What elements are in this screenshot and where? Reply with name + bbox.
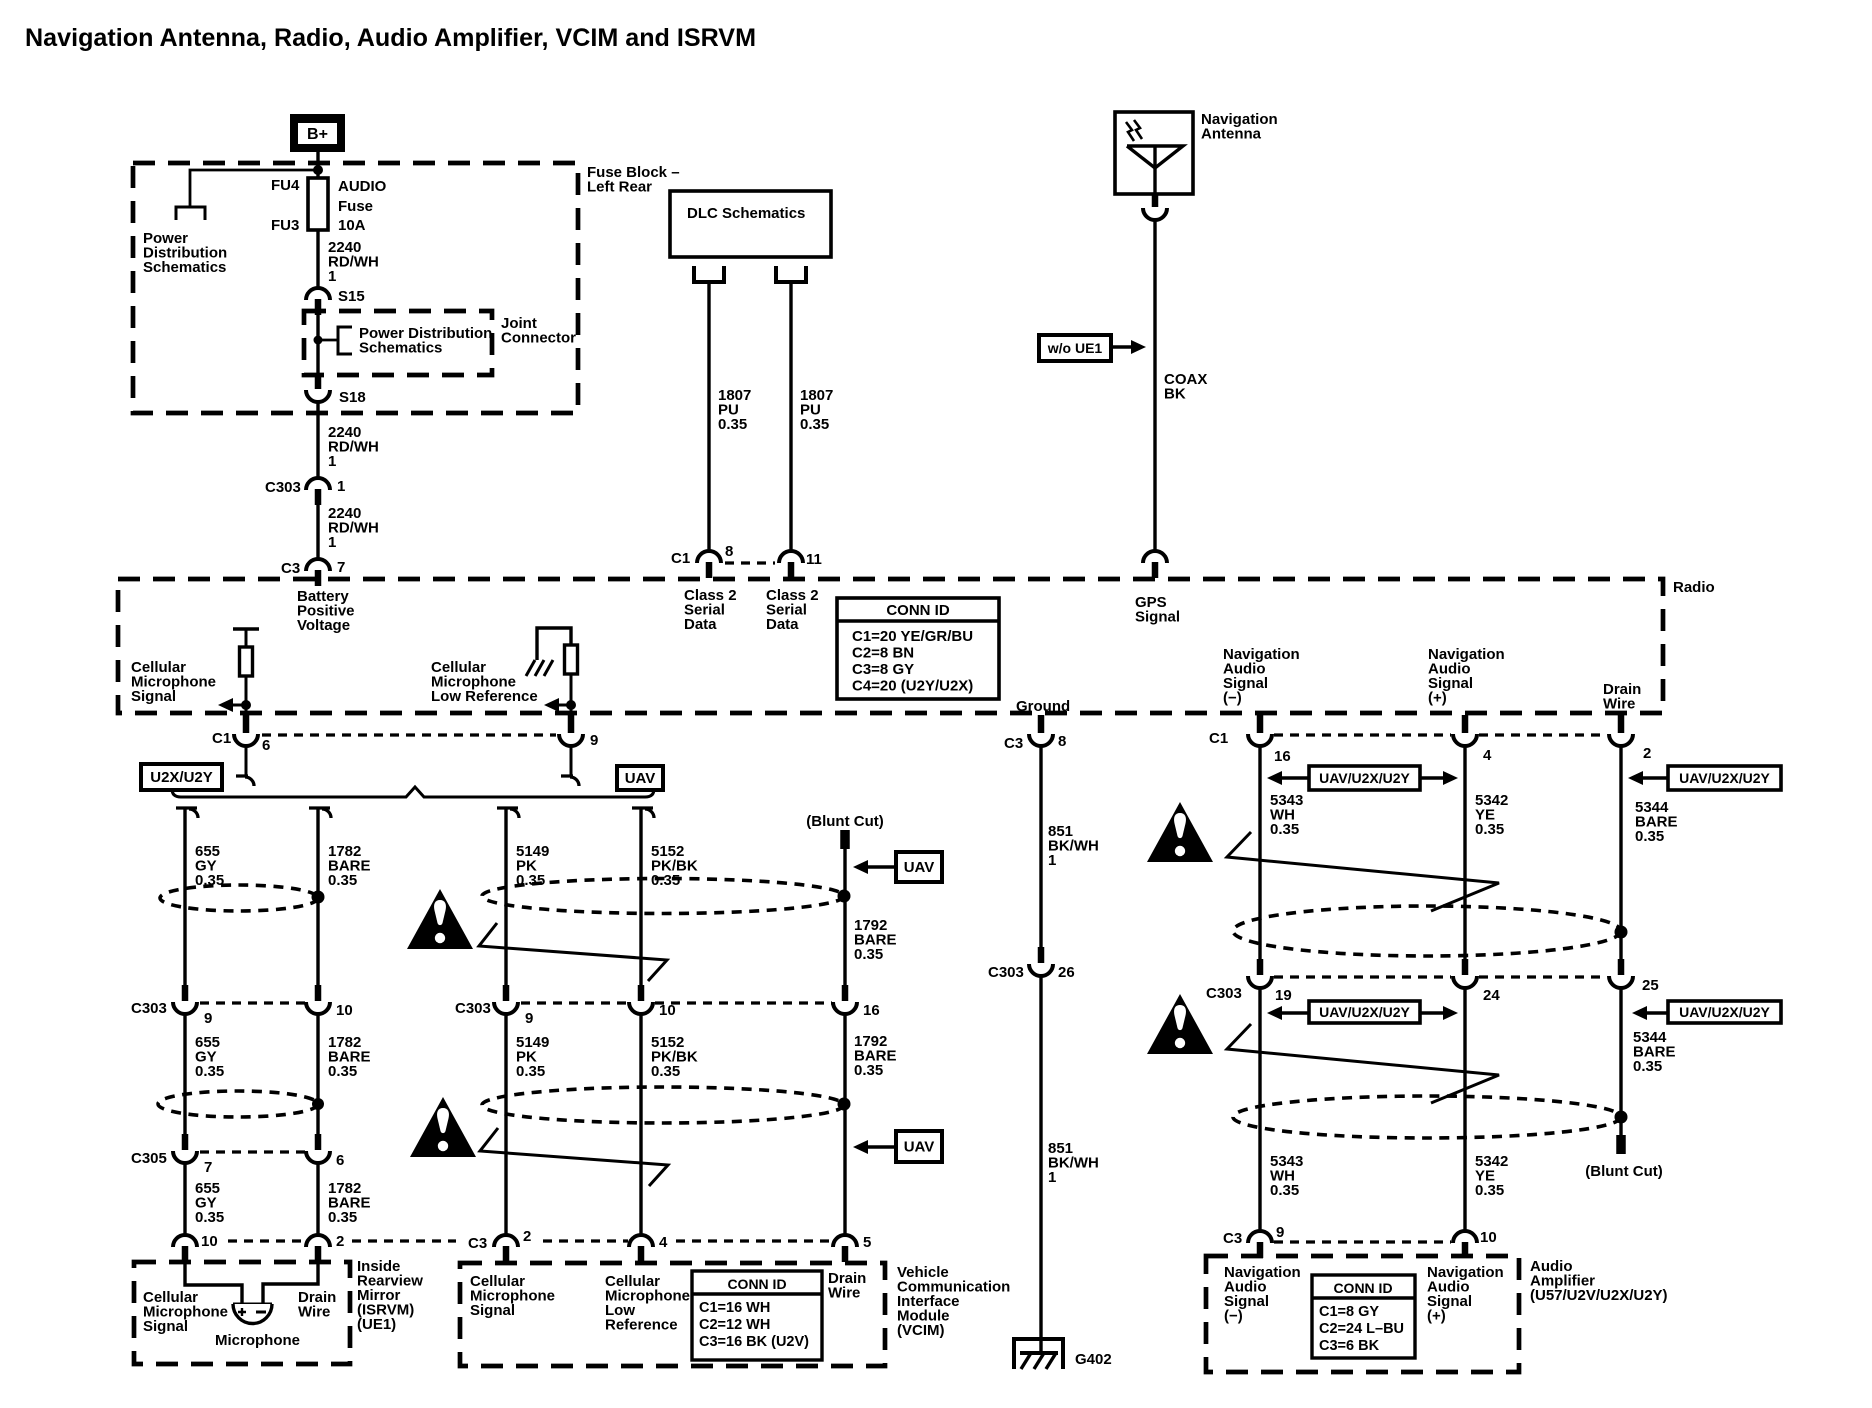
twisted pair ellipse VCIM 1 (482, 879, 844, 914)
twisted pair pointer VCIM 2 (480, 1128, 668, 1186)
svg-text:19: 19 (1275, 987, 1292, 1004)
DLC Schematics box (670, 191, 831, 257)
dashed connector row C1 right (1274, 733, 1451, 736)
ground G402 symbol (1014, 1339, 1063, 1369)
svg-text:C1: C1 (212, 730, 231, 747)
svg-text:C1: C1 (671, 550, 690, 567)
wire 24 down to amp (1463, 987, 1466, 1231)
svg-text:10: 10 (201, 1233, 218, 1250)
wire B+ to fuse block (316, 152, 319, 178)
junction bare at ellipse 1 (312, 891, 325, 904)
svg-text:FU3: FU3 (271, 217, 299, 234)
connector C305 pin 7 (182, 1134, 189, 1150)
junction mic signal (241, 700, 251, 710)
cellular microphone low reference bracket (537, 628, 571, 660)
connector C3 pin 9 amp (1248, 1231, 1272, 1243)
harness tag U2X/U2Y (141, 764, 222, 790)
dashed connector row C1 (262, 733, 556, 736)
svg-text:S15: S15 (338, 288, 365, 305)
connector C305 pin 6 (315, 1134, 322, 1150)
svg-text:C3=16 BK (U2V): C3=16 BK (U2V) (699, 1334, 809, 1350)
joint connector dashed box (304, 311, 492, 375)
harness tag UAV/U2X/U2Y drain row2 (1632, 1006, 1668, 1020)
svg-text:10: 10 (336, 1002, 353, 1019)
junction drain VCIM 2 (838, 1098, 851, 1111)
svg-text:9: 9 (590, 732, 598, 749)
svg-text:Microphone: Microphone (215, 1332, 300, 1349)
svg-text:CONN ID: CONN ID (886, 602, 950, 619)
svg-text:C3=6 BK: C3=6 BK (1319, 1338, 1380, 1354)
junction drain at ellipse 2 (1615, 1111, 1628, 1124)
warning triangle radio pair (1147, 802, 1213, 862)
fuse FU4/FU3 AUDIO 10A (308, 178, 328, 230)
wire 655 GY lower (183, 1162, 186, 1235)
connector C1 pin 2 (1618, 715, 1625, 733)
svg-text:Radio: Radio (1673, 579, 1715, 596)
svg-text:CONN ID: CONN ID (1333, 1280, 1392, 1296)
wire C1-9 to twisted pair break (570, 745, 573, 776)
svg-text:C2=24 L–BU: C2=24 L–BU (1319, 1321, 1404, 1337)
svg-text:0.35: 0.35 (195, 1063, 224, 1080)
svg-text:2: 2 (336, 1233, 344, 1250)
connector C3 pin 8 (1038, 715, 1045, 733)
svg-text:24: 24 (1483, 987, 1500, 1004)
connector C303 pin 1 (306, 478, 330, 490)
svg-text:C3=8 GY: C3=8 GY (852, 661, 914, 678)
wire to joint connector reference (318, 339, 338, 342)
harness tag UAV lower (853, 1140, 896, 1154)
svg-text:25: 25 (1642, 977, 1659, 994)
harness tag UAV/U2X/U2Y with arrows (1267, 771, 1458, 785)
connector C303 pin 16 VCIM (842, 985, 849, 1001)
connector C1 pin 9 (568, 715, 575, 733)
svg-text:Antenna: Antenna (1201, 126, 1262, 143)
dashed connector row C303 VCIM (521, 1001, 628, 1004)
svg-text:2: 2 (1643, 745, 1651, 762)
twisted pair ellipse amp (1233, 1096, 1621, 1138)
svg-text:Signal: Signal (1135, 609, 1180, 626)
wire ground segment 851 (1039, 745, 1042, 947)
junction drain at ellipse (1615, 926, 1628, 939)
svg-text:9: 9 (1276, 1224, 1284, 1241)
DLC receptacle right (776, 266, 806, 282)
connector C1 pin 8 into radio (697, 551, 721, 563)
wire 5152 PK/BK lower (639, 1013, 642, 1235)
connector GPS into radio (1143, 551, 1167, 563)
junction mic low reference (566, 700, 576, 710)
svg-text:Voltage: Voltage (297, 617, 350, 634)
svg-text:Data: Data (684, 616, 717, 633)
connector C303 pin 10 VCIM (638, 985, 645, 1001)
svg-text:1: 1 (328, 534, 336, 551)
wire resistor to C1 pin 9 (570, 674, 573, 716)
antenna interference bolts (1126, 122, 1134, 141)
resistor in radio mic low reference (565, 645, 578, 674)
svg-text:1: 1 (337, 478, 345, 495)
svg-text:8: 8 (725, 543, 733, 560)
connector C1 pin 6 (243, 715, 250, 733)
wire DLC to C1 pin 8 (707, 282, 710, 551)
wire 1792 BARE lower (843, 1013, 846, 1235)
wire radio 2 drain down (1619, 745, 1622, 959)
power distribution schematics bracket (176, 207, 205, 220)
cellular microphone signal source bar (233, 627, 259, 630)
chassis ground hatch in radio (526, 660, 553, 676)
dashed connector link C1 (725, 561, 775, 564)
svg-text:26: 26 (1058, 964, 1075, 981)
harness brace (172, 787, 654, 797)
warning triangle VCIM 2 (410, 1097, 476, 1157)
wire fuse to S15 (316, 230, 319, 288)
junction bare at ellipse 2 (312, 1098, 324, 1110)
svg-text:(VCIM): (VCIM) (897, 1322, 945, 1339)
svg-text:C303: C303 (1206, 985, 1242, 1002)
wire 1792 BARE drain top (843, 849, 846, 985)
svg-text:FU4: FU4 (271, 177, 300, 194)
pigtail end mic signal (236, 776, 254, 786)
node B+ battery positive terminal (290, 114, 345, 152)
svg-text:0.35: 0.35 (1270, 1182, 1299, 1199)
svg-text:C3: C3 (1004, 735, 1023, 752)
svg-text:(U57/U2V/U2X/U2Y): (U57/U2V/U2X/U2Y) (1530, 1287, 1668, 1304)
blunt cut bar right (1616, 1135, 1626, 1154)
dashed connector row C303 left (200, 1001, 305, 1004)
svg-text:4: 4 (659, 1234, 668, 1251)
svg-text:Wire: Wire (298, 1304, 330, 1321)
harness tag UAV top (853, 860, 896, 874)
svg-text:1: 1 (328, 453, 336, 470)
connector C303 pin 9 left (182, 985, 189, 1001)
junction in joint connector (314, 336, 323, 345)
svg-text:10: 10 (1480, 1229, 1497, 1246)
svg-text:7: 7 (204, 1159, 212, 1176)
svg-text:C303: C303 (131, 1000, 167, 1017)
dashed connector row C305 (200, 1150, 305, 1153)
arrow w/o UE1 (1111, 345, 1133, 348)
svg-text:0.35: 0.35 (516, 1063, 545, 1080)
harness tag UAV (617, 766, 663, 790)
svg-text:7: 7 (337, 559, 345, 576)
svg-text:10A: 10A (338, 217, 366, 234)
twisted pair ellipse radio (1233, 906, 1621, 956)
svg-text:9: 9 (204, 1010, 212, 1027)
connector C303 pin 26 (1038, 947, 1045, 963)
svg-text:C305: C305 (131, 1150, 167, 1167)
svg-text:11: 11 (806, 551, 822, 568)
svg-text:16: 16 (1274, 748, 1291, 765)
svg-text:Connector: Connector (501, 330, 576, 347)
connector C3 pin 10 amp (1453, 1231, 1477, 1243)
twisted pair pointer amp (1227, 1024, 1499, 1103)
junction drain VCIM 1 (838, 890, 851, 903)
svg-text:0.35: 0.35 (651, 1063, 680, 1080)
wire 5149 PK top (497, 808, 519, 818)
microphone symbol (233, 1304, 272, 1324)
resistor in radio mic signal (245, 629, 248, 647)
svg-text:Ground: Ground (1016, 698, 1070, 715)
connector C3 pin 4 VCIM (629, 1235, 653, 1247)
wire radio 4 down (1463, 745, 1466, 959)
connector C303 pin 25 (1618, 959, 1625, 975)
svg-text:C1=16 WH: C1=16 WH (699, 1300, 770, 1316)
arrow cellular microphone low reference (558, 704, 571, 707)
dashed connector row C3 amp (1274, 1240, 1451, 1243)
svg-text:C2=8 BN: C2=8 BN (852, 645, 914, 662)
svg-text:1: 1 (1048, 1169, 1056, 1186)
fuse block dashed box (133, 163, 578, 413)
svg-text:(+): (+) (1427, 1308, 1446, 1325)
joint connector power distribution bracket (338, 327, 352, 354)
svg-text:4: 4 (1483, 747, 1492, 764)
svg-text:Signal: Signal (143, 1318, 188, 1335)
svg-text:Low Reference: Low Reference (431, 688, 538, 705)
wire S18 to C303 (316, 401, 319, 478)
svg-text:UAV: UAV (625, 770, 656, 787)
svg-text:UAV: UAV (904, 1139, 935, 1156)
svg-text:Wire: Wire (1603, 696, 1635, 713)
svg-text:0.35: 0.35 (1475, 1182, 1504, 1199)
svg-text:Wire: Wire (828, 1285, 860, 1302)
svg-text:C303: C303 (265, 479, 301, 496)
svg-text:0.35: 0.35 (854, 946, 883, 963)
wire resistor to C1 pin 6 (245, 676, 248, 716)
svg-text:C4=20 (U2Y/U2X): C4=20 (U2Y/U2X) (852, 678, 973, 695)
wire 19 down to amp (1258, 987, 1261, 1231)
DLC receptacle left (694, 266, 724, 282)
twisted pair ellipse ISRVM 2 (158, 1091, 318, 1117)
dashed connector row C303 right (1274, 975, 1451, 978)
connector C303 pin 10 left (315, 985, 322, 1001)
connector C3 pin 2 VCIM (494, 1235, 518, 1247)
antenna connector (1152, 195, 1159, 207)
svg-text:C1=20 YE/GR/BU: C1=20 YE/GR/BU (852, 628, 973, 645)
svg-text:(Blunt Cut): (Blunt Cut) (1585, 1163, 1662, 1180)
svg-text:(Blunt Cut): (Blunt Cut) (806, 813, 883, 830)
svg-text:0.35: 0.35 (718, 416, 747, 433)
connector C303 pin 19 (1257, 959, 1264, 975)
svg-text:6: 6 (262, 737, 270, 754)
svg-text:0.35: 0.35 (800, 416, 829, 433)
connector C3 pin 5 VCIM (833, 1235, 857, 1247)
radio dashed box (118, 579, 1663, 713)
wire DLC to C1 pin 11 (789, 282, 792, 551)
radio CONN ID table (837, 598, 999, 699)
svg-text:C303: C303 (455, 1000, 491, 1017)
wire 5149 PK lower (504, 1013, 507, 1235)
svg-text:Signal: Signal (470, 1302, 515, 1319)
svg-text:Fuse: Fuse (338, 198, 373, 215)
svg-text:UAV: UAV (904, 859, 935, 876)
svg-text:AUDIO: AUDIO (338, 178, 387, 195)
wire pair left 1782 BARE (309, 808, 331, 818)
harness tag UAV/U2X/U2Y drain (1628, 771, 1668, 785)
svg-text:G402: G402 (1075, 1351, 1112, 1368)
amp CONN ID table (1312, 1275, 1415, 1358)
svg-text:UAV/U2X/U2Y: UAV/U2X/U2Y (1679, 1004, 1770, 1020)
VCIM dashed box (460, 1263, 885, 1366)
connector C303 pin 9 VCIM (503, 985, 510, 1001)
twisted pair ellipse ISRVM 1 (160, 885, 318, 911)
wire 5152 PK/BK top (632, 808, 654, 818)
svg-text:C303: C303 (988, 964, 1024, 981)
navigation antenna box (1115, 112, 1193, 194)
connector C303 pin 24 (1462, 959, 1469, 975)
svg-text:0.35: 0.35 (1475, 821, 1504, 838)
connector pin 10 into ISRVM (173, 1235, 197, 1247)
svg-text:1: 1 (1048, 852, 1056, 869)
wire pair left 655 GY (176, 808, 198, 818)
wire C303 to C3 (316, 505, 319, 559)
antenna symbol (1127, 146, 1183, 168)
svg-text:0.35: 0.35 (328, 872, 357, 889)
connector C1 pin 4 (1462, 715, 1469, 733)
svg-text:(−): (−) (1224, 1308, 1243, 1325)
svg-text:9: 9 (525, 1010, 533, 1027)
junction on B+ feed (313, 165, 323, 175)
connector pin 2 into ISRVM (306, 1235, 330, 1247)
svg-text:Navigation Antenna, Radio, Aud: Navigation Antenna, Radio, Audio Amplifi… (25, 24, 756, 52)
svg-text:0.35: 0.35 (1635, 828, 1664, 845)
svg-text:5: 5 (863, 1234, 871, 1251)
warning triangle VCIM 1 (407, 889, 473, 949)
twisted pair pointer radio (1227, 832, 1499, 911)
svg-text:UAV/U2X/U2Y: UAV/U2X/U2Y (1319, 1004, 1410, 1020)
connector C1 pin 11 into radio (779, 551, 803, 563)
splice S15 (306, 288, 330, 300)
wire branch to power distribution (190, 170, 318, 207)
svg-text:6: 6 (336, 1152, 344, 1169)
option tag w/o UE1 (1039, 335, 1111, 361)
svg-text:0.35: 0.35 (854, 1062, 883, 1079)
dashed connector row C3 VCIM (543, 1239, 628, 1242)
svg-text:CONN ID: CONN ID (727, 1276, 786, 1292)
svg-text:0.35: 0.35 (328, 1209, 357, 1226)
arrow cellular microphone signal (232, 704, 246, 707)
wire 25 down to blunt cut (1619, 987, 1622, 1135)
svg-text:Data: Data (766, 616, 799, 633)
wire S15 to S18 (316, 314, 319, 374)
blunt cut bar top (840, 830, 850, 849)
svg-text:(UE1): (UE1) (357, 1316, 396, 1333)
svg-text:DLC Schematics: DLC Schematics (687, 205, 805, 222)
wire ground to G402 (1039, 974, 1042, 1353)
svg-text:S18: S18 (339, 389, 366, 406)
svg-text:w/o UE1: w/o UE1 (1047, 340, 1103, 356)
twisted pair pointer VCIM 1 (479, 923, 667, 981)
connector C1 pin 16 (1257, 715, 1264, 733)
VCIM CONN ID table (692, 1271, 822, 1360)
wire radio 16 down (1258, 745, 1261, 959)
svg-text:0.35: 0.35 (1633, 1058, 1662, 1075)
wire 1782 BARE mid (316, 1013, 319, 1134)
svg-text:C3: C3 (1223, 1230, 1242, 1247)
svg-text:C3: C3 (281, 560, 300, 577)
dashed connector row ISRVM (228, 1239, 303, 1242)
svg-text:2: 2 (523, 1228, 531, 1245)
ISRVM dashed box (134, 1262, 350, 1364)
svg-text:Schematics: Schematics (359, 340, 442, 357)
splice S18 (315, 373, 322, 389)
svg-text:UAV/U2X/U2Y: UAV/U2X/U2Y (1319, 770, 1410, 786)
svg-text:(−): (−) (1223, 690, 1242, 707)
pigtail end mic low reference (561, 776, 579, 786)
svg-text:0.35: 0.35 (328, 1063, 357, 1080)
svg-text:BK: BK (1164, 386, 1186, 403)
svg-text:0.35: 0.35 (195, 1209, 224, 1226)
svg-text:8: 8 (1058, 733, 1066, 750)
svg-text:U2X/U2Y: U2X/U2Y (150, 769, 213, 786)
svg-text:Left Rear: Left Rear (587, 179, 652, 196)
wire 1782 BARE lower (316, 1162, 319, 1235)
svg-text:B+: B+ (307, 126, 328, 143)
warning triangle amp pair (1147, 994, 1213, 1054)
svg-text:Reference: Reference (605, 1317, 678, 1334)
audio amplifier dashed box (1206, 1256, 1519, 1372)
svg-text:1: 1 (328, 268, 336, 285)
mic wires inside ISRVM (185, 1262, 242, 1304)
svg-text:C1: C1 (1209, 730, 1228, 747)
coax wire antenna to radio (1153, 219, 1156, 551)
svg-text:0.35: 0.35 (1270, 821, 1299, 838)
svg-text:C2=12 WH: C2=12 WH (699, 1317, 770, 1333)
svg-text:(+): (+) (1428, 690, 1447, 707)
svg-text:Signal: Signal (131, 688, 176, 705)
twisted pair ellipse VCIM 2 (482, 1087, 844, 1123)
svg-text:C3: C3 (468, 1235, 487, 1252)
harness tag UAV/U2X/U2Y row2 with arrows (1267, 1006, 1458, 1020)
svg-text:16: 16 (863, 1002, 880, 1019)
connector C3 pin 7 into radio (306, 559, 330, 571)
svg-text:UAV/U2X/U2Y: UAV/U2X/U2Y (1679, 770, 1770, 786)
wire 655 GY mid (183, 1013, 186, 1134)
svg-text:C1=8 GY: C1=8 GY (1319, 1304, 1379, 1320)
svg-text:Schematics: Schematics (143, 259, 226, 276)
svg-text:0.35: 0.35 (651, 872, 680, 889)
wire C1-6 to twisted pair break (245, 745, 248, 776)
